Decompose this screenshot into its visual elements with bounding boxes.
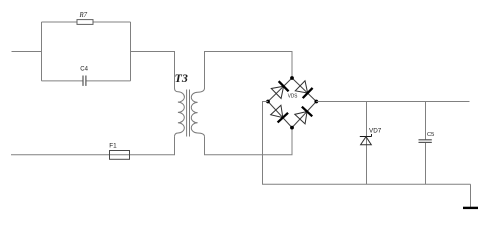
wire: bridge left vertex to bottom rail bbox=[263, 102, 471, 185]
fuse F1 bbox=[109, 142, 130, 159]
node: bridge right vertex bbox=[314, 100, 318, 104]
wire: VD7 branch upper bbox=[366, 102, 368, 137]
transformer T3 secondary winding bbox=[191, 88, 204, 137]
bridge VDS diamond edge bottom-right bbox=[292, 102, 316, 128]
wire: secondary bottom to bridge bbox=[205, 128, 293, 155]
node: bridge top vertex bbox=[290, 76, 294, 80]
bridge VDS diamond edge bottom-left bbox=[268, 102, 292, 128]
bridge VDS diamond edge top-right bbox=[292, 78, 316, 102]
transformer T3 primary winding bbox=[175, 88, 185, 137]
wire: left AC lead top bbox=[12, 51, 42, 53]
capacitor C4 bbox=[80, 67, 88, 86]
bridge VDS diamond edge top-left bbox=[268, 78, 292, 102]
wire: RC loop left side bbox=[41, 22, 43, 81]
wire: fuse to left AC lead bottom bbox=[11, 154, 109, 156]
svg-text:VDS: VDS bbox=[288, 94, 298, 100]
transformer T3 core lines bbox=[186, 90, 188, 137]
bridge diode VDS top-left bbox=[271, 81, 288, 98]
bridge diode VDS top-right bbox=[295, 81, 312, 98]
node: bridge bottom vertex bbox=[290, 126, 294, 130]
zener diode VD7 bbox=[360, 128, 382, 145]
svg-text:VD7: VD7 bbox=[369, 128, 382, 135]
ground bbox=[463, 207, 478, 209]
node: bridge left vertex bbox=[266, 100, 270, 104]
bridge diode VDS bottom-right bbox=[295, 107, 312, 124]
svg-text:T3: T3 bbox=[175, 71, 188, 85]
wire: RC loop bottom right segment bbox=[86, 80, 131, 82]
wire: secondary top to bridge bbox=[205, 52, 293, 89]
wire: RC loop top side bbox=[42, 21, 131, 23]
svg-text:R7: R7 bbox=[79, 12, 88, 19]
svg-text:C4: C4 bbox=[80, 67, 88, 73]
wire: positive rail from bridge right vertex bbox=[316, 101, 469, 103]
svg-text:F1: F1 bbox=[109, 142, 117, 149]
wire: RC block to transformer primary bbox=[131, 52, 175, 89]
wire: VD7 branch lower bbox=[366, 137, 368, 185]
resistor R7 bbox=[77, 12, 93, 24]
wire: bottom rail to ground bbox=[470, 184, 472, 207]
svg-text:C5: C5 bbox=[427, 132, 434, 138]
capacitor C5 bbox=[419, 132, 435, 142]
wire: RC loop right side bbox=[130, 22, 132, 81]
wire: primary winding bottom to fuse bbox=[130, 137, 175, 155]
wire: RC loop bottom left segment bbox=[42, 80, 84, 82]
wire: C5 branch lower bbox=[425, 142, 427, 184]
wire: C5 branch upper bbox=[425, 102, 427, 140]
bridge diode VDS bottom-left bbox=[271, 105, 288, 122]
